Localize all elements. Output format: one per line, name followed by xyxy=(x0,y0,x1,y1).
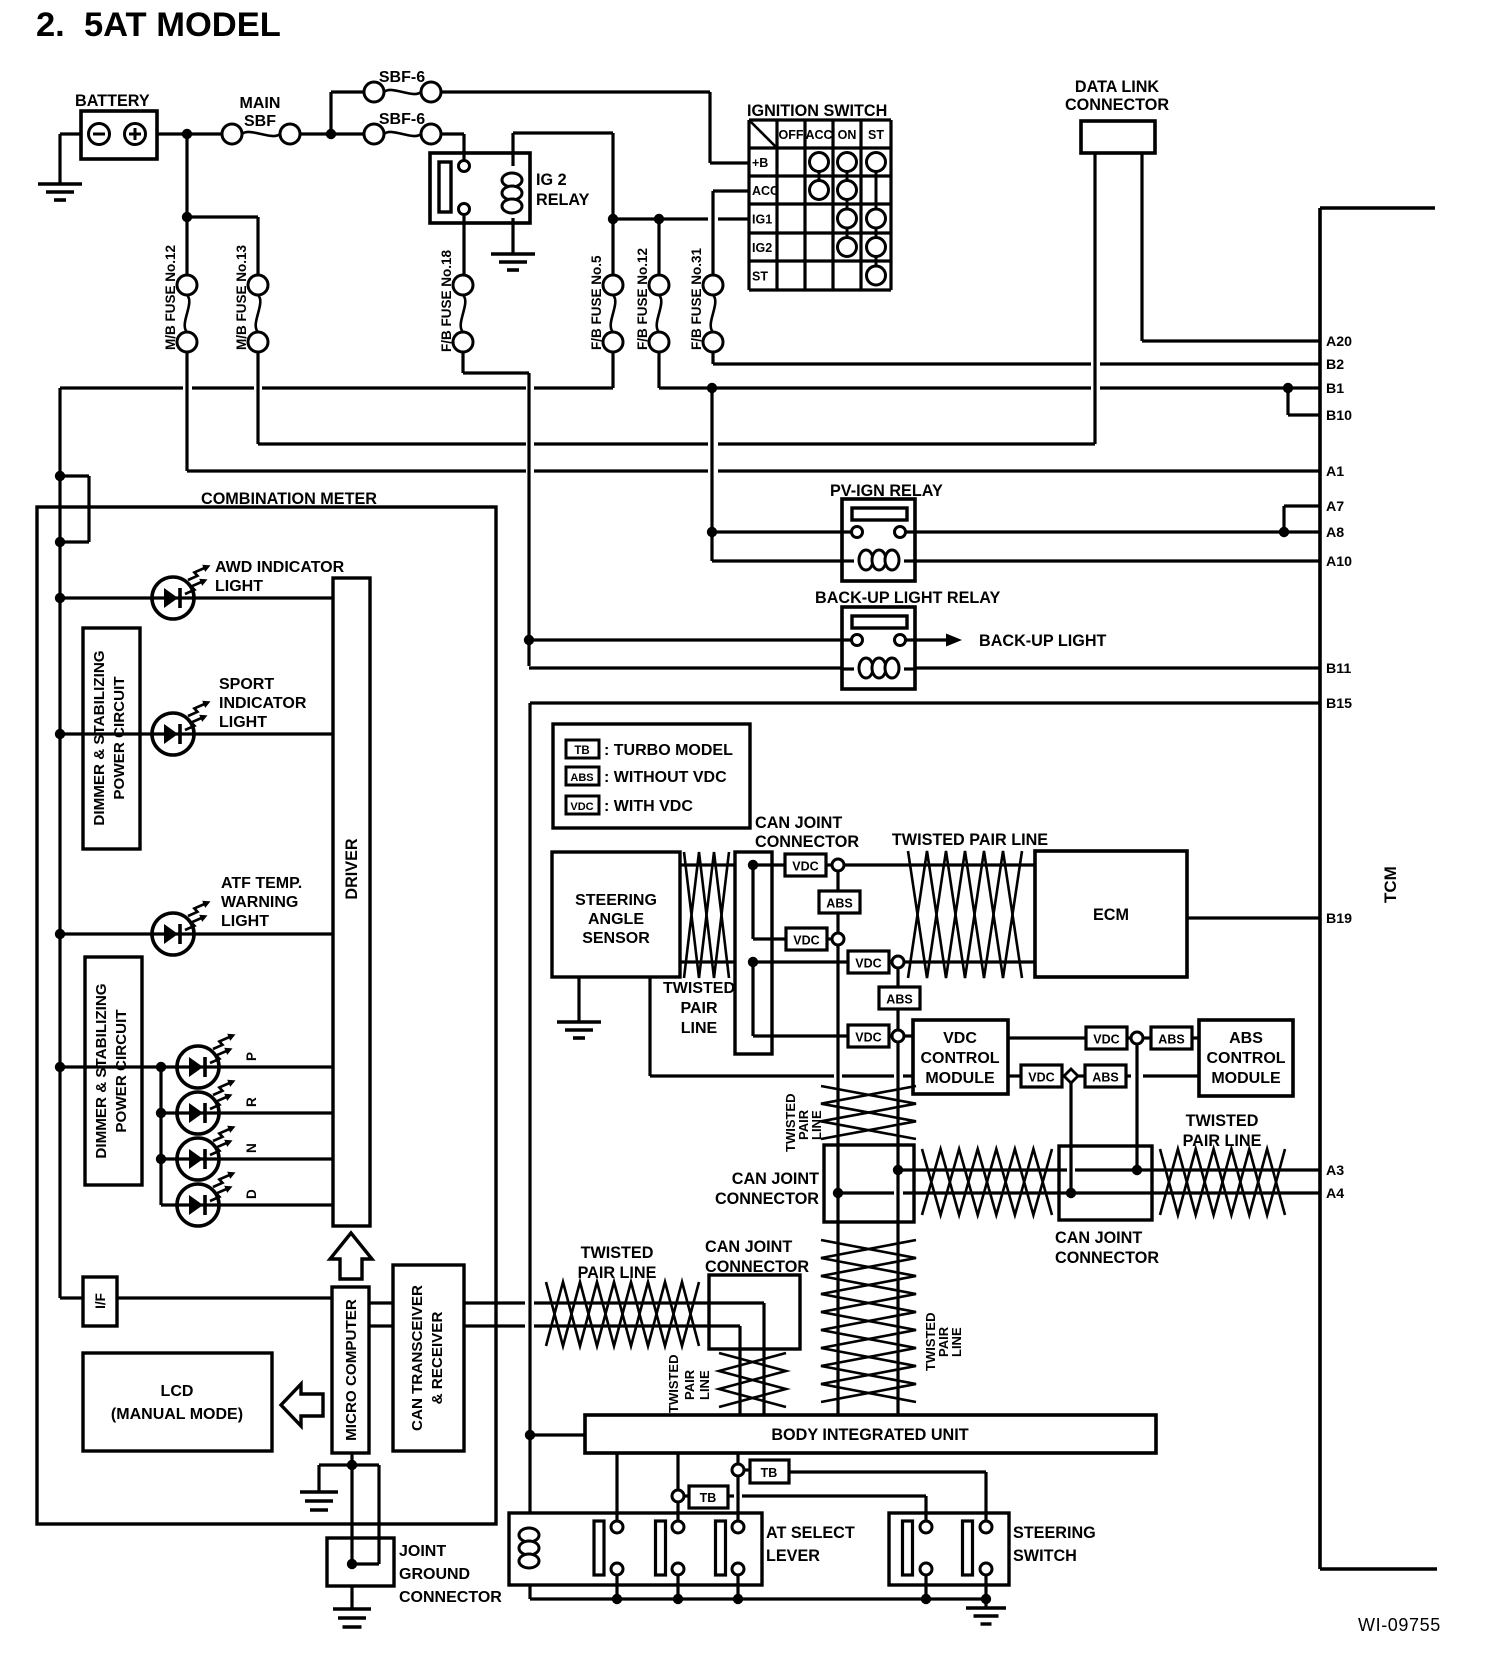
svg-text:STEERING: STEERING xyxy=(575,892,657,909)
svg-text:SWITCH: SWITCH xyxy=(1013,1547,1077,1565)
svg-text:GROUND: GROUND xyxy=(399,1566,470,1583)
svg-text:STEERING: STEERING xyxy=(1013,1524,1096,1542)
svg-text:: WITHOUT VDC: : WITHOUT VDC xyxy=(604,769,727,786)
svg-text:I/F: I/F xyxy=(93,1293,108,1309)
svg-text:N: N xyxy=(244,1143,259,1153)
svg-text:LIGHT: LIGHT xyxy=(215,578,263,595)
svg-text:TWISTED: TWISTED xyxy=(1186,1112,1259,1130)
svg-text:LINE: LINE xyxy=(697,1370,712,1400)
svg-text:ABS: ABS xyxy=(1158,1033,1184,1047)
svg-text:VDC: VDC xyxy=(855,1031,881,1045)
svg-text:IG1: IG1 xyxy=(752,213,772,227)
svg-text:VDC: VDC xyxy=(793,934,819,948)
svg-text:F/B FUSE No.31: F/B FUSE No.31 xyxy=(689,247,704,350)
svg-text:F/B FUSE No.5: F/B FUSE No.5 xyxy=(589,255,604,350)
svg-text:TWISTED PAIR LINE: TWISTED PAIR LINE xyxy=(892,831,1048,849)
svg-text:ECM: ECM xyxy=(1093,906,1129,924)
svg-text:B11: B11 xyxy=(1326,661,1351,677)
svg-text:CAN JOINT: CAN JOINT xyxy=(1055,1229,1142,1247)
svg-text:SPORT: SPORT xyxy=(219,676,274,693)
svg-text:VDC: VDC xyxy=(1093,1033,1119,1047)
svg-text:RELAY: RELAY xyxy=(536,191,590,209)
svg-text:B2: B2 xyxy=(1326,357,1344,373)
svg-text:VDC: VDC xyxy=(943,1030,977,1047)
svg-text:MODULE: MODULE xyxy=(1211,1070,1281,1087)
svg-text:M/B FUSE No.13: M/B FUSE No.13 xyxy=(234,244,249,350)
svg-text:F/B FUSE No.18: F/B FUSE No.18 xyxy=(439,249,454,352)
svg-text:POWER CIRCUIT: POWER CIRCUIT xyxy=(111,676,128,800)
svg-text:B10: B10 xyxy=(1326,408,1352,424)
svg-text:CAN JOINT: CAN JOINT xyxy=(732,1170,819,1188)
svg-text:IG2: IG2 xyxy=(752,241,772,255)
svg-text:TB: TB xyxy=(574,745,589,757)
svg-text:SBF-6: SBF-6 xyxy=(379,69,425,86)
svg-text:F/B FUSE No.12: F/B FUSE No.12 xyxy=(635,248,650,350)
svg-text:A10: A10 xyxy=(1326,554,1352,570)
svg-text:OFF: OFF xyxy=(779,128,804,142)
svg-text:IGNITION SWITCH: IGNITION SWITCH xyxy=(747,102,887,120)
svg-text:PAIR: PAIR xyxy=(682,1369,697,1400)
svg-text:MODULE: MODULE xyxy=(925,1070,995,1087)
svg-text:TWISTED: TWISTED xyxy=(663,980,735,997)
svg-text:TB: TB xyxy=(700,1491,717,1505)
svg-text:VDC: VDC xyxy=(855,957,881,971)
svg-text:CONNECTOR: CONNECTOR xyxy=(1065,96,1169,114)
svg-text:SENSOR: SENSOR xyxy=(582,930,650,947)
svg-text:LEVER: LEVER xyxy=(766,1547,820,1565)
svg-text:ABS: ABS xyxy=(570,772,593,784)
svg-text:CAN JOINT: CAN JOINT xyxy=(705,1238,792,1256)
svg-text:B15: B15 xyxy=(1326,696,1352,712)
svg-text:VDC: VDC xyxy=(792,860,818,874)
svg-text:TWISTED: TWISTED xyxy=(581,1244,654,1262)
svg-text:TB: TB xyxy=(761,1466,778,1480)
svg-text:BACK-UP LIGHT RELAY: BACK-UP LIGHT RELAY xyxy=(815,589,1000,607)
svg-text:B19: B19 xyxy=(1326,911,1352,927)
svg-text:CAN JOINT: CAN JOINT xyxy=(755,814,842,832)
svg-text:POWER CIRCUIT: POWER CIRCUIT xyxy=(113,1009,130,1133)
svg-text:ATF TEMP.: ATF TEMP. xyxy=(221,875,302,892)
svg-text:+B: +B xyxy=(752,156,768,170)
svg-text:VDC: VDC xyxy=(570,801,593,813)
svg-text:ST: ST xyxy=(752,270,768,284)
svg-text:ABS: ABS xyxy=(886,993,912,1007)
svg-text:DATA LINK: DATA LINK xyxy=(1075,78,1160,96)
svg-text:ABS: ABS xyxy=(1092,1071,1118,1085)
svg-text:PAIR LINE: PAIR LINE xyxy=(578,1264,657,1282)
svg-text:ACC: ACC xyxy=(805,128,832,142)
svg-text:WI-09755: WI-09755 xyxy=(1358,1615,1441,1635)
svg-text:A4: A4 xyxy=(1326,1186,1344,1202)
svg-text:CAN TRANSCEIVER: CAN TRANSCEIVER xyxy=(409,1285,426,1431)
svg-text:ST: ST xyxy=(868,128,884,142)
svg-text:CONNECTOR: CONNECTOR xyxy=(1055,1249,1159,1267)
svg-text:LINE: LINE xyxy=(681,1020,718,1037)
svg-text:DRIVER: DRIVER xyxy=(343,838,361,899)
svg-text:PAIR: PAIR xyxy=(680,1000,717,1017)
svg-text:& RECEIVER: & RECEIVER xyxy=(429,1312,446,1405)
svg-text:D: D xyxy=(244,1189,259,1199)
svg-text:A1: A1 xyxy=(1326,464,1344,480)
svg-text:A3: A3 xyxy=(1326,1163,1344,1179)
svg-text:WARNING: WARNING xyxy=(221,894,298,911)
svg-text:P: P xyxy=(244,1052,259,1061)
svg-text:: WITH VDC: : WITH VDC xyxy=(604,798,693,815)
svg-text:A8: A8 xyxy=(1326,525,1344,541)
svg-text:LCD: LCD xyxy=(161,1383,194,1400)
svg-text:A20: A20 xyxy=(1326,334,1352,350)
svg-text:R: R xyxy=(244,1097,259,1107)
svg-text:A7: A7 xyxy=(1326,499,1344,515)
svg-text:MAIN: MAIN xyxy=(240,95,281,112)
svg-text:M/B FUSE No.12: M/B FUSE No.12 xyxy=(163,245,178,350)
svg-text:BATTERY: BATTERY xyxy=(75,92,150,110)
svg-text:CONTROL: CONTROL xyxy=(920,1050,999,1067)
svg-text:VDC: VDC xyxy=(1028,1071,1054,1085)
svg-text:ANGLE: ANGLE xyxy=(588,911,644,928)
svg-text:CONTROL: CONTROL xyxy=(1206,1050,1285,1067)
svg-text:: TURBO MODEL: : TURBO MODEL xyxy=(604,742,733,759)
svg-text:LIGHT: LIGHT xyxy=(219,714,267,731)
svg-text:CONNECTOR: CONNECTOR xyxy=(755,833,859,851)
svg-text:DIMMER & STABILIZING: DIMMER & STABILIZING xyxy=(93,983,110,1158)
svg-text:IG 2: IG 2 xyxy=(536,171,567,189)
svg-text:TCM: TCM xyxy=(1381,866,1400,903)
svg-text:SBF-6: SBF-6 xyxy=(379,111,425,128)
svg-text:TWISTED: TWISTED xyxy=(666,1355,681,1414)
svg-text:ABS: ABS xyxy=(826,897,852,911)
svg-text:BODY INTEGRATED UNIT: BODY INTEGRATED UNIT xyxy=(771,1426,968,1444)
svg-text:SBF: SBF xyxy=(244,113,276,130)
svg-text:INDICATOR: INDICATOR xyxy=(219,695,307,712)
svg-text:AWD INDICATOR: AWD INDICATOR xyxy=(215,559,345,576)
svg-text:MICRO COMPUTER: MICRO COMPUTER xyxy=(343,1299,360,1441)
svg-text:LIGHT: LIGHT xyxy=(221,913,269,930)
svg-text:ABS: ABS xyxy=(1229,1030,1263,1047)
svg-text:DIMMER & STABILIZING: DIMMER & STABILIZING xyxy=(91,650,108,825)
svg-text:2.: 2. xyxy=(36,6,65,44)
svg-text:ON: ON xyxy=(838,128,857,142)
svg-text:AT SELECT: AT SELECT xyxy=(766,1524,855,1542)
svg-text:BACK-UP LIGHT: BACK-UP LIGHT xyxy=(979,632,1107,650)
svg-text:LINE: LINE xyxy=(949,1327,964,1357)
svg-text:CONNECTOR: CONNECTOR xyxy=(399,1589,502,1606)
svg-text:(MANUAL MODE): (MANUAL MODE) xyxy=(111,1406,243,1423)
svg-text:CONNECTOR: CONNECTOR xyxy=(715,1190,819,1208)
svg-text:LINE: LINE xyxy=(809,1110,824,1140)
svg-text:CONNECTOR: CONNECTOR xyxy=(705,1258,809,1276)
svg-text:PAIR LINE: PAIR LINE xyxy=(1183,1132,1262,1150)
svg-text:ACC: ACC xyxy=(752,184,779,198)
svg-text:B1: B1 xyxy=(1326,381,1344,397)
svg-text:5AT MODEL: 5AT MODEL xyxy=(84,6,281,44)
svg-text:JOINT: JOINT xyxy=(399,1543,446,1560)
